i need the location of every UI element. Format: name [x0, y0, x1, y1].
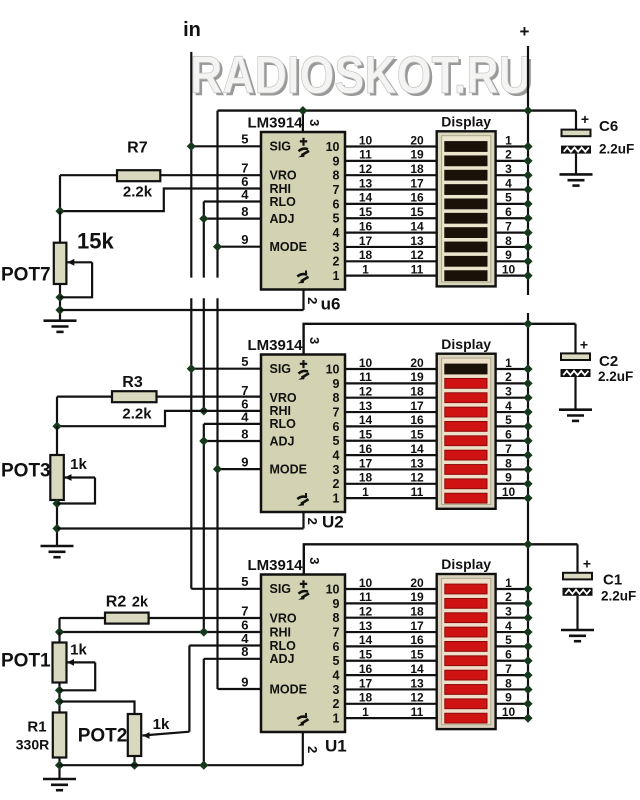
svg-text:12: 12	[359, 385, 373, 399]
svg-text:7: 7	[505, 662, 512, 676]
svg-text:10: 10	[326, 362, 340, 376]
svg-text:19: 19	[410, 148, 424, 162]
svg-text:2: 2	[305, 297, 320, 304]
svg-text:18: 18	[359, 248, 373, 262]
svg-text:13: 13	[410, 676, 424, 690]
svg-text:Display: Display	[441, 114, 491, 130]
svg-text:20: 20	[410, 356, 424, 370]
svg-text:1: 1	[505, 576, 512, 590]
svg-text:+: +	[580, 337, 588, 353]
svg-text:5: 5	[333, 654, 340, 668]
svg-text:1k: 1k	[70, 456, 87, 473]
svg-text:2.2uF: 2.2uF	[598, 369, 633, 384]
svg-text:14: 14	[359, 191, 373, 205]
svg-text:9: 9	[241, 232, 248, 247]
svg-text:11: 11	[359, 148, 372, 162]
svg-text:2.2k: 2.2k	[122, 406, 152, 423]
svg-text:13: 13	[410, 456, 424, 470]
svg-text:10: 10	[359, 133, 373, 147]
svg-text:LM3914: LM3914	[248, 557, 304, 574]
svg-text:10: 10	[359, 356, 373, 370]
svg-text:R1: R1	[27, 719, 46, 736]
svg-text:6: 6	[505, 428, 512, 442]
svg-text:4: 4	[333, 669, 340, 683]
svg-text:10: 10	[326, 582, 340, 596]
svg-text:1: 1	[333, 269, 340, 283]
svg-text:3: 3	[505, 385, 512, 399]
svg-text:10: 10	[359, 576, 373, 590]
svg-text:SIG: SIG	[270, 140, 292, 154]
svg-text:6: 6	[333, 420, 340, 434]
svg-text:6: 6	[505, 648, 512, 662]
svg-text:5: 5	[505, 633, 512, 647]
svg-text:RHI: RHI	[270, 625, 292, 639]
svg-text:5: 5	[333, 212, 340, 226]
svg-text:10: 10	[502, 262, 516, 276]
svg-text:16: 16	[410, 413, 424, 427]
svg-text:15: 15	[359, 648, 373, 662]
svg-text:10: 10	[502, 485, 516, 499]
svg-text:R3: R3	[122, 374, 143, 391]
svg-text:Display: Display	[441, 556, 491, 572]
svg-text:C1: C1	[603, 572, 622, 589]
svg-text:POT2: POT2	[78, 726, 128, 747]
svg-text:13: 13	[359, 619, 373, 633]
svg-text:1: 1	[362, 705, 369, 719]
svg-text:2k: 2k	[132, 595, 149, 611]
svg-text:5: 5	[505, 413, 512, 427]
svg-text:10: 10	[326, 140, 340, 154]
svg-text:2.2uF: 2.2uF	[599, 142, 634, 157]
svg-text:15k: 15k	[77, 229, 114, 254]
svg-text:6: 6	[333, 197, 340, 211]
svg-text:3: 3	[333, 240, 340, 254]
svg-text:2: 2	[333, 697, 340, 711]
svg-text:8: 8	[505, 676, 512, 690]
svg-text:18: 18	[359, 471, 373, 485]
svg-text:19: 19	[410, 370, 424, 384]
svg-text:RHI: RHI	[270, 182, 292, 196]
svg-text:9: 9	[333, 597, 340, 611]
svg-text:3: 3	[333, 683, 340, 697]
svg-text:R2: R2	[106, 594, 127, 611]
svg-text:15: 15	[359, 428, 373, 442]
svg-text:MODE: MODE	[270, 462, 308, 476]
svg-text:2: 2	[305, 518, 320, 525]
svg-text:8: 8	[333, 391, 340, 405]
svg-text:16: 16	[359, 662, 373, 676]
svg-text:SIG: SIG	[270, 582, 292, 596]
svg-text:1k: 1k	[153, 716, 170, 733]
svg-text:9: 9	[505, 691, 512, 705]
svg-text:MODE: MODE	[270, 240, 308, 254]
svg-text:12: 12	[359, 162, 373, 176]
svg-text:2: 2	[505, 148, 512, 162]
svg-text:4: 4	[505, 619, 512, 633]
svg-text:RLO: RLO	[270, 195, 297, 209]
svg-text:17: 17	[359, 676, 373, 690]
svg-text:ADJ: ADJ	[270, 212, 295, 226]
svg-text:U1: U1	[325, 737, 347, 756]
svg-text:17: 17	[410, 619, 424, 633]
svg-text:17: 17	[410, 399, 424, 413]
svg-text:ADJ: ADJ	[270, 434, 295, 448]
svg-text:13: 13	[359, 176, 373, 190]
svg-text:13: 13	[359, 399, 373, 413]
svg-text:5: 5	[505, 191, 512, 205]
svg-text:in: in	[183, 19, 201, 41]
svg-text:7: 7	[333, 625, 340, 639]
svg-text:4: 4	[505, 399, 512, 413]
svg-text:12: 12	[410, 691, 424, 705]
svg-text:2.2k: 2.2k	[123, 184, 153, 201]
svg-text:3: 3	[307, 119, 322, 126]
svg-text:9: 9	[241, 674, 248, 689]
svg-text:14: 14	[410, 662, 424, 676]
svg-text:+: +	[583, 556, 591, 572]
svg-text:18: 18	[359, 691, 373, 705]
svg-text:7: 7	[333, 405, 340, 419]
svg-text:6: 6	[505, 205, 512, 219]
svg-text:VRO: VRO	[270, 611, 297, 625]
svg-text:3: 3	[505, 605, 512, 619]
svg-text:2.2uF: 2.2uF	[601, 589, 636, 604]
svg-text:12: 12	[359, 605, 373, 619]
svg-text:5: 5	[241, 574, 248, 589]
svg-text:RLO: RLO	[270, 639, 297, 653]
svg-text:16: 16	[359, 442, 373, 456]
svg-text:11: 11	[411, 262, 424, 276]
svg-text:VRO: VRO	[270, 391, 297, 405]
svg-text:12: 12	[410, 248, 424, 262]
svg-text:MODE: MODE	[270, 682, 308, 696]
svg-text:1: 1	[505, 356, 512, 370]
svg-text:u6: u6	[321, 295, 341, 314]
svg-text:7: 7	[241, 603, 248, 618]
svg-text:3: 3	[505, 162, 512, 176]
svg-text:9: 9	[505, 248, 512, 262]
svg-text:9: 9	[505, 471, 512, 485]
svg-text:19: 19	[410, 590, 424, 604]
svg-text:LM3914: LM3914	[248, 337, 304, 354]
svg-text:U2: U2	[322, 513, 344, 532]
svg-text:15: 15	[410, 205, 424, 219]
svg-text:11: 11	[359, 590, 372, 604]
svg-text:POT1: POT1	[1, 651, 51, 672]
svg-text:3: 3	[307, 557, 322, 564]
svg-text:C2: C2	[599, 353, 618, 370]
svg-text:+: +	[520, 22, 530, 41]
svg-text:5: 5	[333, 434, 340, 448]
svg-text:RHI: RHI	[270, 404, 292, 418]
svg-text:+: +	[581, 111, 589, 127]
svg-text:17: 17	[410, 176, 424, 190]
svg-text:14: 14	[410, 442, 424, 456]
svg-text:20: 20	[410, 133, 424, 147]
svg-text:8: 8	[505, 456, 512, 470]
svg-text:9: 9	[333, 154, 340, 168]
svg-text:10: 10	[502, 705, 516, 719]
svg-text:1: 1	[333, 492, 340, 506]
svg-text:VRO: VRO	[270, 169, 297, 183]
svg-text:11: 11	[411, 705, 424, 719]
svg-text:17: 17	[359, 234, 373, 248]
svg-text:7: 7	[505, 219, 512, 233]
svg-text:9: 9	[241, 455, 248, 470]
svg-text:8: 8	[333, 611, 340, 625]
svg-text:4: 4	[505, 176, 512, 190]
svg-text:3: 3	[333, 463, 340, 477]
svg-text:11: 11	[411, 485, 424, 499]
svg-text:1: 1	[362, 485, 369, 499]
svg-text:6: 6	[333, 640, 340, 654]
svg-text:18: 18	[410, 162, 424, 176]
svg-text:2: 2	[505, 590, 512, 604]
svg-text:2: 2	[333, 255, 340, 269]
svg-text:POT7: POT7	[1, 265, 51, 286]
svg-text:1: 1	[505, 133, 512, 147]
svg-text:16: 16	[359, 219, 373, 233]
svg-text:RLO: RLO	[270, 417, 297, 431]
svg-text:ADJ: ADJ	[270, 652, 295, 666]
svg-text:POT3: POT3	[1, 461, 51, 482]
svg-text:9: 9	[333, 377, 340, 391]
svg-text:18: 18	[410, 605, 424, 619]
svg-text:LM3914: LM3914	[248, 115, 304, 132]
svg-text:8: 8	[333, 169, 340, 183]
svg-text:14: 14	[410, 219, 424, 233]
svg-text:11: 11	[359, 370, 372, 384]
svg-text:5: 5	[241, 132, 248, 147]
svg-text:Display: Display	[441, 336, 491, 352]
svg-text:2: 2	[505, 370, 512, 384]
svg-text:14: 14	[359, 413, 373, 427]
svg-text:17: 17	[359, 456, 373, 470]
svg-text:3: 3	[307, 337, 322, 344]
svg-text:15: 15	[410, 428, 424, 442]
svg-text:18: 18	[410, 385, 424, 399]
svg-text:16: 16	[410, 191, 424, 205]
svg-text:20: 20	[410, 576, 424, 590]
svg-text:7: 7	[505, 442, 512, 456]
svg-text:330R: 330R	[16, 737, 49, 753]
svg-text:15: 15	[410, 648, 424, 662]
svg-text:16: 16	[410, 633, 424, 647]
svg-text:1: 1	[362, 262, 369, 276]
svg-text:12: 12	[410, 471, 424, 485]
svg-text:2: 2	[305, 746, 320, 753]
svg-text:1: 1	[333, 712, 340, 726]
svg-text:4: 4	[333, 449, 340, 463]
svg-text:R7: R7	[127, 140, 148, 157]
svg-text:C6: C6	[599, 118, 618, 135]
svg-text:5: 5	[241, 354, 248, 369]
svg-text:8: 8	[241, 204, 248, 219]
svg-text:1k: 1k	[70, 642, 87, 659]
svg-text:4: 4	[333, 226, 340, 240]
svg-text:SIG: SIG	[270, 362, 292, 376]
svg-text:7: 7	[333, 183, 340, 197]
svg-text:8: 8	[241, 426, 248, 441]
svg-text:8: 8	[505, 234, 512, 248]
svg-text:2: 2	[333, 477, 340, 491]
svg-text:15: 15	[359, 205, 373, 219]
svg-text:13: 13	[410, 234, 424, 248]
svg-text:RADIOSKOT.RU: RADIOSKOT.RU	[190, 46, 531, 105]
svg-text:14: 14	[359, 633, 373, 647]
